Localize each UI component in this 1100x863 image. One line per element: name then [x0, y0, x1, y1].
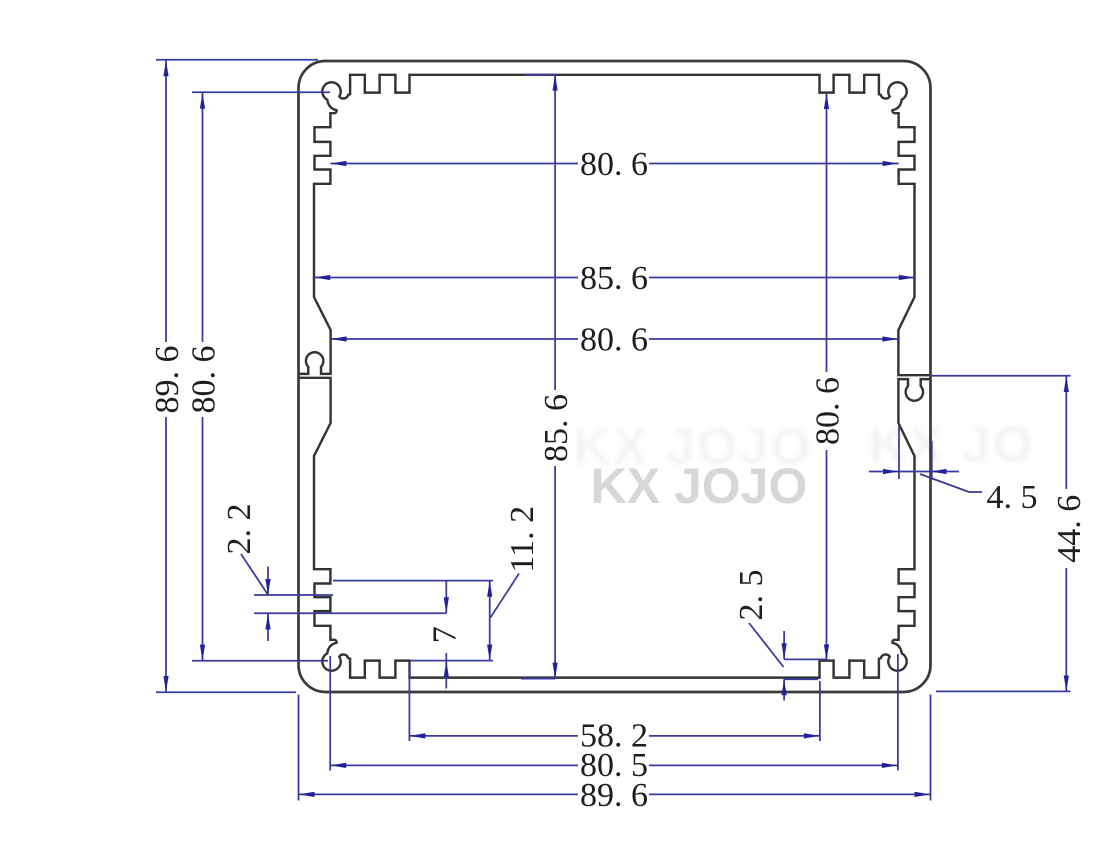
dimension 85.6 inner height (centre)	[521, 75, 575, 679]
svg-text:2. 5: 2. 5	[733, 570, 770, 621]
dimension 89.6 overall width	[299, 695, 931, 814]
dimension 2.5 bottom rib height with leader	[733, 570, 827, 701]
svg-text:80. 6: 80. 6	[810, 377, 847, 445]
dimension 80.6 inner height (right)	[810, 93, 847, 660]
svg-text:44. 6: 44. 6	[1051, 495, 1088, 563]
svg-text:80. 6: 80. 6	[186, 346, 223, 414]
svg-text:80. 6: 80. 6	[580, 322, 648, 359]
svg-text:7: 7	[426, 626, 463, 643]
svg-text:80. 6: 80. 6	[580, 146, 648, 183]
dimension 44.6 lower-right height	[932, 376, 1088, 692]
dimension 80.6 inner height (left)	[186, 92, 331, 661]
svg-text:2. 2: 2. 2	[221, 504, 258, 555]
enclosure outer contour (rounded square profile)	[299, 61, 931, 692]
dimension 7 rib band height	[426, 582, 463, 689]
svg-text:11. 2: 11. 2	[504, 506, 541, 573]
dimension 2.2 rib slot width with leader	[221, 504, 446, 642]
dimension 58.2 bottom width	[409, 663, 820, 755]
svg-text:85. 6: 85. 6	[580, 260, 648, 297]
svg-text:4. 5: 4. 5	[987, 479, 1038, 516]
dimension 4.5 side wall thickness with leader	[869, 426, 1038, 516]
svg-text:KX JOJO: KX JOJO	[591, 458, 808, 514]
svg-text:KX JO: KX JO	[869, 416, 1035, 474]
dimension 11.2 corner recess depth with leader	[333, 506, 541, 661]
svg-text:89. 6: 89. 6	[580, 777, 648, 814]
dimension 85.6 inner width	[314, 260, 915, 297]
dimension 80.6 top inner width	[330, 146, 898, 183]
dimension 80.6 mid inner width	[331, 322, 899, 359]
dimension 80.5 screw boss spacing	[330, 654, 898, 784]
top-shell inner contour: corner screw bosses, serrated ribs, left keyhole screw channel, parting-line slots	[299, 75, 929, 375]
svg-text:85. 6: 85. 6	[538, 394, 575, 462]
svg-text:89. 6: 89. 6	[149, 346, 186, 414]
dimension 89.6 overall height (left)	[149, 60, 318, 692]
bottom-shell inner contour: corner screw bosses, serrated ribs, right keyhole screw channel, parting-line slots	[299, 378, 929, 678]
